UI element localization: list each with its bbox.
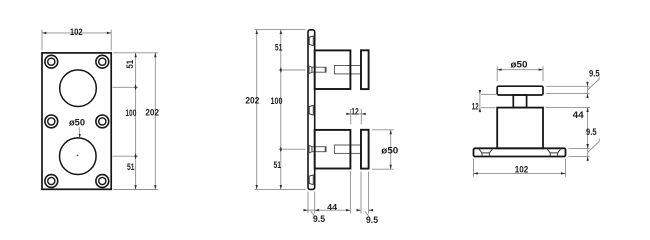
svg-text:44: 44	[573, 110, 585, 121]
dimension 9.5 plate thickness lower right	[569, 127, 600, 161]
standoff lower screw head	[309, 145, 312, 153]
countersunk hole middle side profile	[309, 105, 313, 115]
center mark of bottom large circle	[77, 155, 79, 157]
svg-text:102: 102	[515, 164, 529, 175]
extension lines bottom dims side view	[308, 171, 369, 214]
extension line top circle center	[113, 86, 139, 88]
dimension line 51 100 51 right	[134, 53, 136, 190]
svg-text:9.5: 9.5	[313, 213, 325, 224]
svg-text:51: 51	[275, 42, 283, 52]
dimension 9.5 cap thickness top right	[546, 68, 600, 98]
extension line lower standoff axis left	[279, 148, 306, 150]
standoff lower cap disc	[361, 130, 369, 169]
dimension 9.5 cap thickness with leader	[356, 209, 378, 225]
svg-text:9.5: 9.5	[586, 127, 597, 137]
section view neck	[513, 95, 526, 108]
extension line plate bottom right	[113, 189, 158, 191]
standoff lower screw shaft	[312, 147, 326, 152]
dimension diameter 50 cap width	[497, 59, 543, 81]
standoff upper screw shaft	[312, 67, 326, 72]
svg-text:202: 202	[245, 95, 259, 105]
extension line upper standoff axis left	[279, 69, 306, 71]
screw hole bottom-left outer ring	[45, 175, 58, 188]
screw hole top-left inner ring	[48, 58, 55, 65]
svg-text:100: 100	[271, 96, 283, 106]
standoff lower body	[315, 130, 351, 169]
screw hole mid-left outer ring	[45, 115, 58, 128]
screw hole bottom-right inner ring	[99, 177, 106, 184]
extension line plate bottom left	[255, 188, 306, 190]
dimension 9.5 plate thickness with leader	[304, 209, 325, 224]
svg-text:9.5: 9.5	[366, 214, 378, 225]
dimension 12 neck height	[472, 90, 496, 112]
screw hole top-left outer ring	[45, 55, 58, 68]
svg-text:102: 102	[70, 27, 83, 38]
section view body	[497, 108, 543, 149]
extension line plate top left	[255, 29, 306, 31]
large hole circle top	[60, 70, 97, 107]
svg-text:12: 12	[472, 102, 479, 112]
standoff upper neck bar	[334, 66, 361, 74]
svg-text:51: 51	[274, 160, 282, 170]
screw hole bottom-right outer ring	[96, 175, 109, 188]
dimension 102 base plate width	[474, 159, 566, 177]
screw hole mid-right inner ring	[99, 118, 106, 125]
side view plate outline	[308, 30, 315, 190]
svg-text:202: 202	[145, 108, 159, 118]
svg-text:12: 12	[351, 106, 359, 116]
countersunk hole right in base plate	[547, 149, 561, 156]
screw hole mid-right outer ring	[96, 115, 109, 128]
standoff lower neck bar	[334, 145, 361, 153]
svg-text:100: 100	[125, 108, 136, 118]
screw hole mid-left inner ring	[48, 118, 55, 125]
svg-text:ø50: ø50	[69, 117, 85, 128]
dimension 102 top	[42, 27, 111, 50]
standoff upper screw shaft end	[324, 67, 326, 72]
svg-text:9.5: 9.5	[589, 68, 600, 78]
extension line bottom circle center	[113, 155, 139, 157]
screw hole bottom-left inner ring	[48, 177, 55, 184]
svg-text:51: 51	[127, 162, 135, 172]
section view base plate	[474, 148, 566, 156]
dimension line 51 100 51 left	[280, 30, 282, 190]
svg-text:51: 51	[125, 60, 135, 69]
extension line plate top right	[113, 52, 158, 54]
countersunk hole lower side profile	[309, 175, 313, 185]
dimension 44 body height	[546, 108, 591, 149]
screw hole top-right outer ring	[96, 55, 109, 68]
standoff lower screw shaft end	[324, 147, 326, 152]
countersunk hole left in base plate	[479, 149, 493, 156]
standoff upper body	[315, 50, 351, 89]
standoff upper screw head	[309, 66, 312, 74]
dimension line 202 left	[256, 30, 258, 190]
dimension 44 body length	[303, 203, 350, 212]
dimension 12 glass gap	[346, 106, 365, 124]
section view cap disc	[497, 86, 543, 95]
front view plate outline	[42, 53, 111, 189]
svg-text:ø50: ø50	[381, 145, 398, 156]
dimension diameter 50 cap height	[372, 130, 398, 169]
svg-text:44: 44	[327, 203, 337, 212]
large hole circle bottom	[60, 138, 97, 175]
dimension line 202 right	[154, 53, 156, 190]
svg-text:ø50: ø50	[511, 59, 528, 70]
standoff upper cap disc	[361, 50, 369, 89]
countersunk hole upper side profile	[309, 36, 313, 46]
screw hole top-right inner ring	[99, 58, 106, 65]
label Ø50 with leader arrow	[69, 117, 85, 137]
